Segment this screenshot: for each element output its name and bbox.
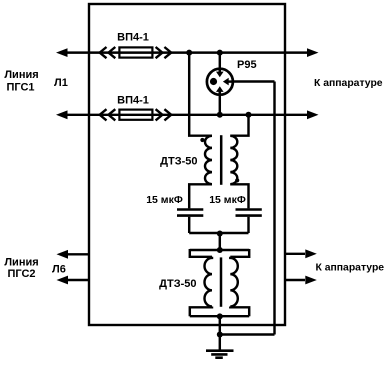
arrester P95 internal top arrow [219,69,221,74]
svg-text:ПГС1: ПГС1 [6,82,34,94]
arrowhead line 2 upper right [305,249,317,258]
arrester U1 P95 bottom lead [219,91,221,115]
arrester P95 internal right arrow [229,80,234,82]
wire P95 ground electrode to node A [233,80,275,82]
arrowhead W2 left (to line ПГС1) [56,110,68,119]
transformer T1 right lead to W2 [230,115,248,136]
svg-text:Р95: Р95 [237,59,257,71]
svg-text:Л6: Л6 [52,264,66,276]
svg-text:ПГС2: ПГС2 [7,268,35,280]
svg-text:ВП4-1: ВП4-1 [117,32,149,44]
capacitor C1 plates (15 мкФ) [177,208,203,211]
arrowhead line 2 lower left [57,276,69,285]
fuse F1 ВП4-1 body [119,47,152,57]
capacitor C2 plates (15 мкФ) [236,208,262,211]
svg-text:15 мкФ: 15 мкФ [209,194,246,206]
junction dot W1/T1 [186,50,192,56]
arrowhead W1 right (to equipment) [307,48,319,57]
svg-text:Линия: Линия [4,69,38,81]
transformer T1 left bottom lead to C1 [189,184,212,208]
junction dot W2/T1 [246,112,252,118]
svg-text:Л1: Л1 [54,77,68,89]
transformer T1 left lead from W1 [189,53,212,136]
arrowhead line 2 lower right [305,276,317,285]
transformer T1 right winding [230,136,237,184]
ground symbol [219,335,221,351]
arrowhead W1 left (to line ПГС1) [56,48,68,57]
wire T2 center to ground node [219,316,221,334]
transformer T1 right bottom lead to C2 [230,184,248,208]
junction dot W2/P95 [217,112,223,118]
transformer T1 core [220,135,223,185]
transformer T2 core [220,257,223,306]
fuse F2 ВП4-1 body [119,110,152,120]
wire stub line 2 lower left [68,279,90,281]
wire ground node to node A [220,333,275,335]
junction dot ground node [217,332,223,338]
arrester P95 internal bottom arrow [219,91,221,95]
arrowhead line 2 upper left [57,250,69,259]
junction dot T2 top [217,247,223,253]
connector chevrons right of fuse F2 [156,109,172,120]
svg-text:Линия: Линия [4,257,38,269]
transformer T2 right winding [230,257,238,307]
svg-text:К аппаратуре: К аппаратуре [314,78,383,89]
capacitor C1 bottom lead [188,217,190,233]
arrester U1 P95 top lead [219,53,221,74]
arrowhead W2 right (to equipment) [307,110,319,119]
junction dot T2 bottom [217,313,223,319]
wire stub line 2 upper left [68,253,90,255]
junction dot W1/P95 [217,50,223,56]
arrester P95 internal electrode dot [210,78,217,85]
transformer T2 bottom bar [190,315,249,317]
connector chevrons left of fuse F2 [100,109,116,120]
wire W2 (line 1 lower conductor, y=114.8) [64,114,307,116]
wire W1 (line 1 upper conductor, y=52.6) [64,51,307,53]
svg-text:ДТЗ-50: ДТЗ-50 [159,278,196,290]
transformer T1 left winding ДТЗ-50 [205,136,212,184]
transformer T2 left bottom jog [190,307,212,317]
wire stub line 2 lower right [285,279,305,281]
svg-text:К аппаратуре: К аппаратуре [316,263,385,274]
transformer T2 left top jog [190,249,212,257]
svg-text:ДТЗ-50: ДТЗ-50 [160,156,197,168]
connector chevrons right of fuse F1 [156,47,172,58]
wire node A down right side [273,82,275,335]
junction dot bus center [217,231,223,237]
transformer T2 top bar [190,249,249,251]
svg-text:15 мкФ: 15 мкФ [146,194,183,206]
transformer T1 polarity dot right [235,178,239,182]
transformer T2 right top jog [230,249,249,257]
wire stub line 2 upper right [285,253,305,255]
transformer T2 right bottom jog [230,307,249,317]
svg-text:ВП4-1: ВП4-1 [117,95,149,107]
wire bus to T2 [219,233,221,250]
wire capacitor bus [189,232,248,235]
transformer T1 polarity dot left [200,138,204,142]
arrester U1 P95 circle [207,69,233,95]
transformer T2 left winding ДТЗ-50 [204,257,212,307]
unit enclosure box [89,4,285,325]
capacitor C2 bottom lead [247,217,249,233]
connector chevrons left of fuse F1 [100,47,116,58]
